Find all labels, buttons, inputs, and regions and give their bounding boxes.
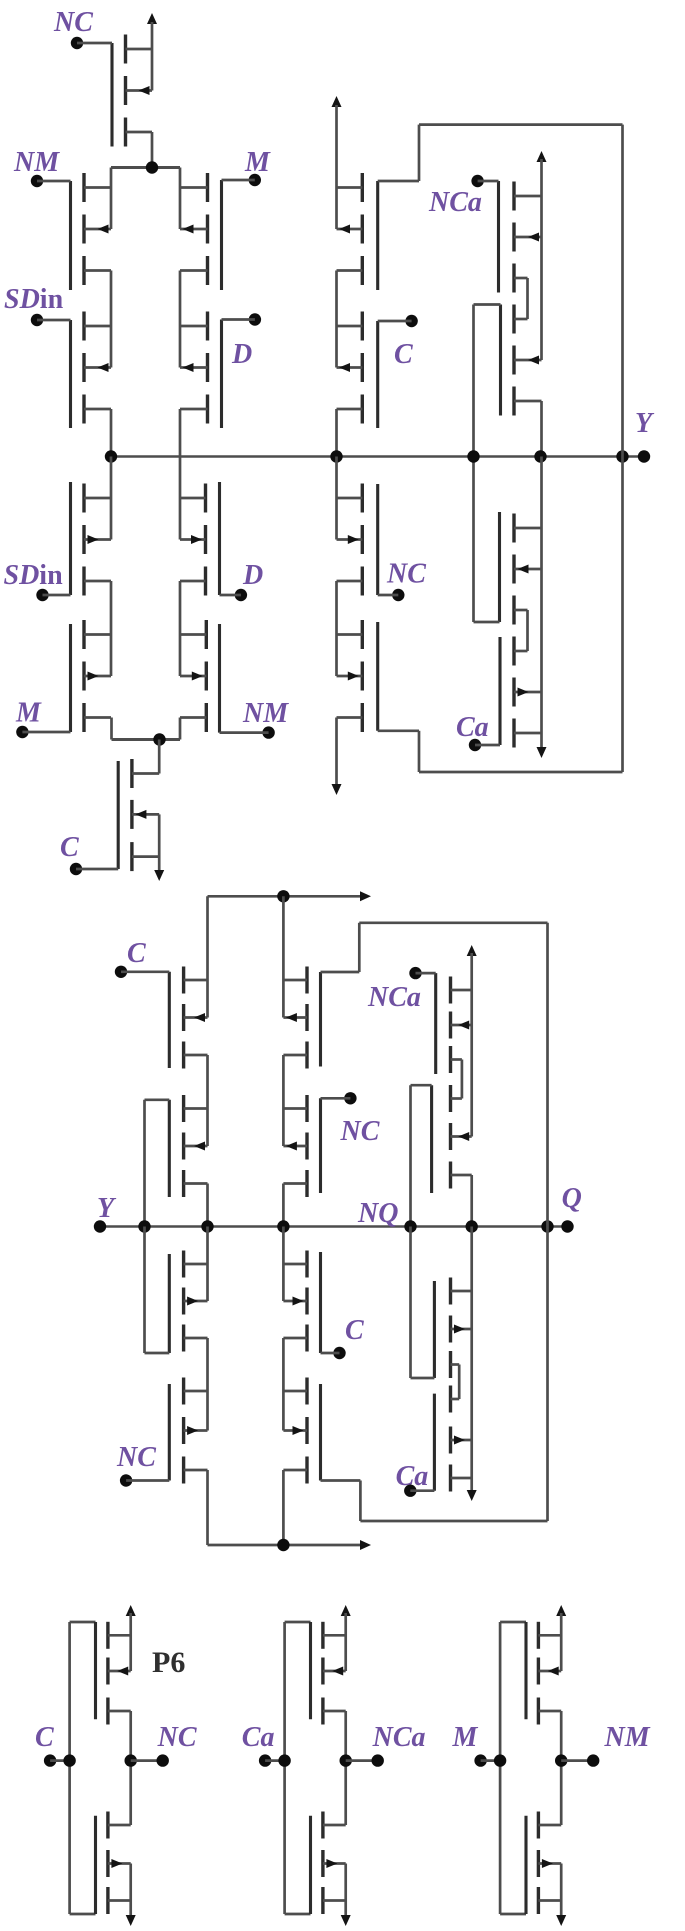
svg-text:SDin: SDin — [4, 560, 64, 591]
svg-text:NC: NC — [340, 1116, 380, 1147]
inverter output junction dot (cell M/NM) — [555, 1754, 567, 1766]
power arrow VDD mid column — [332, 96, 342, 107]
svg-text:NQ: NQ — [357, 1198, 398, 1229]
svg-text:NM: NM — [13, 147, 60, 178]
rail x=207.5 lower (mid circuit) — [206, 1227, 209, 1302]
inverter NMOS drain (cell Ca/NCa) — [344, 1761, 347, 1825]
terminal dot NCa (mid circuit) — [409, 967, 421, 979]
terminal dot M lower — [16, 726, 28, 738]
transistor T-NC (gate NC) — [169, 1378, 207, 1484]
terminal dot Y — [638, 450, 650, 462]
junction dot bus 3 — [277, 1220, 289, 1232]
terminal dot Ca — [469, 739, 481, 751]
rail x=111 lower — [110, 457, 113, 540]
terminal dot NC (mid circuit) — [344, 1092, 356, 1104]
inverter output wire (cell M/NM) — [561, 1759, 593, 1762]
svg-text:SDin: SDin — [4, 284, 64, 315]
inverter NMOS drain (cell C/NC) — [129, 1761, 132, 1825]
junction dot bus 6 — [541, 1220, 553, 1232]
transistor N-SDin (gate SDin, pull-down) — [71, 482, 112, 596]
inverter gate loop (cell Ca/NCa) — [283, 1622, 286, 1914]
terminal dot C (mid circuit) — [115, 966, 127, 978]
wire T6 drain to bus — [470, 1175, 473, 1227]
inverter output junction dot (cell C/NC) — [125, 1754, 137, 1766]
wire C to foot gate — [76, 868, 118, 871]
wire NM lower to gate — [220, 731, 269, 734]
svg-text:NCa: NCa — [367, 982, 421, 1013]
svg-text:NM: NM — [242, 698, 289, 729]
svg-text:Ca: Ca — [456, 712, 489, 743]
svg-text:NC: NC — [386, 559, 426, 590]
inverter output wire (cell Ca/NCa) — [346, 1759, 378, 1762]
keeper rail lower + arrow (mid circuit) — [470, 1227, 473, 1493]
svg-text:NC: NC — [53, 7, 93, 38]
transistor T-mid1 (gate Q-feedback) — [283, 967, 320, 1069]
wire NC to T-mid2 gate — [321, 1097, 351, 1100]
wire row1 top — [111, 166, 180, 169]
junction dot bus left — [105, 450, 117, 462]
svg-text:Q: Q — [562, 1183, 582, 1214]
transistor T2 (keeper, gate from node) — [501, 305, 542, 416]
inverter PMOS drain (cell C/NC) — [129, 1711, 132, 1761]
wire Ca to T8 gate — [410, 1489, 434, 1492]
svg-text:NC: NC — [157, 1722, 197, 1753]
terminal dot Y (mid circuit) — [94, 1220, 106, 1232]
terminal dot SDin — [31, 314, 43, 326]
keeper inner rail upper — [526, 278, 529, 319]
terminal dot NC — [71, 37, 83, 49]
svg-text:C: C — [60, 832, 79, 863]
inverter output dot (cell Ca/NCa) — [372, 1754, 384, 1766]
transistor T-C (gate C, mid circuit) — [169, 967, 207, 1069]
wire D to gate — [222, 318, 255, 321]
top wire (middle circuit) — [208, 895, 364, 898]
transistor N-M (gate M, pull-down) — [71, 620, 112, 732]
inverter output junction dot (cell Ca/NCa) — [340, 1754, 352, 1766]
keeper inner rail lower (mid circuit) — [458, 1365, 461, 1400]
svg-text:C: C — [394, 339, 413, 370]
inverter output dot (cell M/NM) — [587, 1754, 599, 1766]
svg-text:M: M — [244, 147, 271, 178]
feedback wire right side — [621, 125, 624, 772]
wire T7 gate loop — [409, 1227, 412, 1379]
inverter PMOS (cell C/NC) — [96, 1622, 131, 1725]
wire NCa to T1 gate — [478, 180, 499, 183]
transistor T-mid3 (gate C) — [283, 1251, 320, 1354]
wire Ca to T4 gate — [475, 744, 500, 747]
wire T-pass2 gate loop — [143, 1227, 146, 1354]
svg-text:P6: P6 — [152, 1646, 185, 1679]
svg-text:C: C — [345, 1315, 364, 1346]
terminal dot NC mid — [392, 589, 404, 601]
inverter input wire (cell M/NM) — [481, 1759, 501, 1762]
inverter input wire (cell C/NC) — [50, 1759, 70, 1762]
svg-text:M: M — [452, 1722, 479, 1753]
inverter input wire (cell Ca/NCa) — [265, 1759, 285, 1762]
rail x=111 upper — [110, 168, 113, 230]
wire T3 gate loop — [474, 621, 500, 624]
terminal dot C — [405, 315, 417, 327]
power arrow VDD inverter (cell C/NC) — [126, 1605, 136, 1616]
transistor T-pass (gate Y-loop) — [169, 1095, 207, 1197]
transistor T3 (keeper, gate from node) — [500, 512, 542, 625]
terminal dot C (mid lower) — [333, 1347, 345, 1359]
inverter PMOS (cell Ca/NCa) — [311, 1622, 346, 1725]
inverter gate loop (cell C/NC) — [68, 1622, 71, 1914]
svg-text:Y: Y — [97, 1193, 117, 1224]
junction dot C-transistor — [153, 733, 165, 745]
terminal dot Q — [561, 1220, 573, 1232]
inverter NMOS (cell C/NC) — [96, 1812, 131, 1915]
svg-text:D: D — [242, 560, 263, 591]
svg-text:C: C — [35, 1722, 54, 1753]
wire D lower to gate — [220, 594, 241, 597]
transistor B (mid column, gate C) — [337, 312, 378, 429]
svg-text:D: D — [231, 339, 252, 370]
transistor N-C (gate C, foot) — [118, 759, 159, 871]
rail x=336.5 segments — [335, 271, 338, 368]
transistor T5 (keeper, gate NCa) — [436, 973, 472, 1074]
terminal dot NM lower — [262, 726, 274, 738]
terminal dot M — [249, 174, 261, 186]
rail x=283.4 upper (mid circuit) — [282, 896, 285, 1017]
wire T-mid1 gate to feedback — [321, 971, 360, 974]
transistor T7 (keeper, gate NQ-loop) — [434, 1278, 471, 1379]
svg-text:NCa: NCa — [372, 1722, 426, 1753]
inverter input dot (cell C/NC) — [44, 1754, 56, 1766]
rail x=283.4 lower (mid circuit) — [282, 1227, 285, 1302]
junction dot bus 2 — [201, 1220, 213, 1232]
junction dot bus keeper-rail — [534, 450, 546, 462]
inverter gate loop (cell M/NM) — [499, 1622, 502, 1914]
node bus (top circuit) — [111, 455, 644, 458]
keeper inner rail upper (mid circuit) — [461, 1060, 464, 1099]
inverter PMOS drain (cell Ca/NCa) — [344, 1711, 347, 1761]
node bus NQ/Q (mid circuit) — [100, 1225, 568, 1228]
power arrow VDD T0 — [147, 13, 157, 24]
terminal dot C foot — [70, 863, 82, 875]
inverter PMOS drain (cell M/NM) — [560, 1711, 563, 1761]
transistor T0 (gate NC) — [112, 35, 152, 147]
inverter input dot (cell M/NM) — [474, 1754, 486, 1766]
transistor C-prime (mid column, gate NC) — [337, 484, 378, 596]
transistor T6 (keeper, gate NQ-loop) — [432, 1085, 472, 1193]
transistor P-D (gate D) — [180, 312, 222, 429]
junction dot bus 1 — [138, 1220, 150, 1232]
transistor T-mid2 (gate NC) — [283, 1095, 320, 1197]
wire C to T-mid3 gate — [321, 1352, 340, 1355]
transistor N-D (gate D, pull-down) — [180, 482, 220, 596]
svg-text:M: M — [15, 698, 42, 729]
inverter input junction dot (cell Ca/NCa) — [278, 1754, 290, 1766]
inverter NMOS drain (cell M/NM) — [560, 1761, 563, 1825]
svg-text:NCa: NCa — [428, 187, 482, 218]
wire D-prime gate to feedback — [378, 729, 419, 732]
inverter input junction dot (cell M/NM) — [494, 1754, 506, 1766]
transistor T-pass2 (gate Y-loop) — [169, 1251, 207, 1354]
transistor D-prime (mid column, gate feedback) — [337, 620, 378, 732]
junction dot bus 5 — [466, 1220, 478, 1232]
wire SDin to gate — [37, 319, 71, 322]
svg-text:NM: NM — [604, 1722, 651, 1753]
wire NC to T0 gate — [77, 42, 112, 45]
transistor N-NM (gate NM, pull-down) — [180, 620, 220, 733]
transistor T8 (keeper, gate Ca) — [434, 1386, 471, 1492]
junction dot bus feedback — [616, 450, 628, 462]
power arrow VDD keeper (mid circuit) — [467, 945, 477, 956]
inverter NMOS source + ground arrow (cell C/NC) — [129, 1864, 132, 1918]
svg-text:C: C — [127, 938, 146, 969]
inverter NMOS source + ground arrow (cell M/NM) — [560, 1864, 563, 1918]
power arrow VDD inverter (cell M/NM) — [556, 1605, 566, 1616]
wire NM to gate — [37, 180, 71, 183]
wire T0 drain — [151, 132, 154, 168]
junction dot bus mid — [330, 450, 342, 462]
bottom wire (mid circuit) — [208, 1544, 364, 1547]
terminal dot NC (left lower) — [120, 1474, 132, 1486]
transistor T1 (keeper, gate NCa) — [499, 181, 542, 293]
rail x=336.5 lower + arrow — [335, 457, 338, 540]
rail x=180 upper — [179, 168, 182, 230]
inverter output wire (cell C/NC) — [131, 1759, 163, 1762]
wire NC to T-NC gate — [126, 1479, 169, 1482]
wire to C-transistor — [112, 738, 181, 741]
terminal dot D — [249, 313, 261, 325]
keeper rail lower + arrow — [540, 457, 543, 750]
wire M lower to gate — [22, 731, 70, 734]
junction dot bus keeper-gate — [467, 450, 479, 462]
terminal dot NCa — [471, 175, 483, 187]
junction dot bottom wire — [277, 1539, 289, 1551]
wire SDin lower to gate — [43, 594, 71, 597]
power arrow VDD keeper — [537, 151, 547, 162]
keeper inner rail lower — [526, 610, 529, 651]
inverter NMOS (cell M/NM) — [526, 1812, 561, 1915]
svg-text:Y: Y — [635, 408, 655, 439]
wire A gate to feedback — [378, 180, 419, 183]
rail foot transistor — [158, 740, 161, 774]
junction dot bus 4 — [404, 1220, 416, 1232]
terminal dot SDin lower — [36, 589, 48, 601]
svg-text:NC: NC — [116, 1442, 156, 1473]
inverter NMOS source + ground arrow (cell Ca/NCa) — [344, 1864, 347, 1918]
wire NCa to T5 gate — [416, 972, 436, 975]
transistor P-NM (gate NM) — [71, 173, 112, 290]
terminal dot D lower — [235, 589, 247, 601]
wire NC to C-prime gate — [378, 594, 399, 597]
ground arrow foot — [154, 870, 164, 881]
wire T2 gate loop — [474, 303, 501, 306]
inverter PMOS (cell M/NM) — [526, 1622, 561, 1725]
transistor A (mid column, gate feedback) — [337, 173, 378, 290]
inverter input junction dot (cell C/NC) — [63, 1754, 75, 1766]
power arrow VDD inverter (cell Ca/NCa) — [341, 1605, 351, 1616]
junction dot (152,167.5) — [146, 161, 158, 173]
wire C to T-C gate — [121, 970, 169, 973]
transistor P-M (gate M) — [180, 173, 222, 290]
wire M to gate — [222, 179, 255, 182]
inverter output dot (cell C/NC) — [157, 1754, 169, 1766]
terminal dot Ca (mid circuit) — [404, 1485, 416, 1497]
junction dot top wire — [277, 890, 289, 902]
wire T-pass gate loop — [145, 1098, 170, 1101]
transistor T-mid4 (gate Q-feedback) — [283, 1378, 320, 1484]
inverter input dot (cell Ca/NCa) — [259, 1754, 271, 1766]
transistor P-SDin (gate SDin) — [71, 312, 112, 429]
rail x=207.5 upper (mid circuit) — [206, 896, 209, 1017]
wire T2 drain to node — [540, 401, 543, 457]
terminal dot NM — [31, 175, 43, 187]
inverter NMOS (cell Ca/NCa) — [311, 1812, 346, 1915]
feedback wire right (mid circuit) — [546, 923, 549, 1521]
transistor T4 (keeper, gate Ca) — [500, 637, 542, 748]
wire T-mid4 gate to feedback — [321, 1479, 361, 1482]
wire T6 gate loop — [411, 1084, 432, 1087]
svg-text:Ca: Ca — [242, 1722, 275, 1753]
rail x=180 lower — [179, 581, 182, 676]
wire C to B gate — [378, 320, 412, 323]
